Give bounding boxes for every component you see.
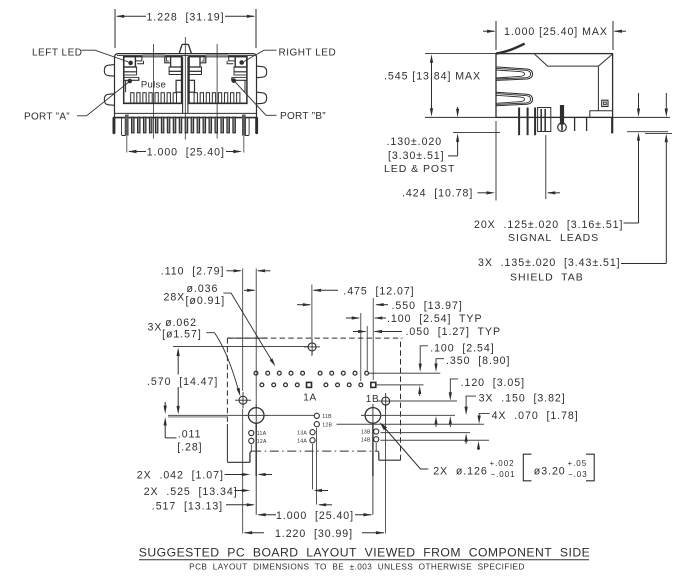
front view left EMI bump lower	[104, 94, 114, 106]
svg-text:SIGNAL LEADS: SIGNAL LEADS	[508, 232, 599, 244]
side view dim 1.000 [25.40] MAX	[483, 30, 495, 32]
pcb dim .011 [.28]	[164, 402, 166, 410]
svg-text:2X .525 [13.34]: 2X .525 [13.34]	[144, 486, 238, 498]
pcb dim .550 [13.97]	[297, 304, 310, 306]
pcb pin 1B square hole	[371, 382, 376, 387]
svg-text:2X ø.126: 2X ø.126	[433, 466, 487, 478]
side view spring finger lower	[496, 92, 533, 106]
pcb ext line crosshair row left	[173, 346, 308, 348]
side view body outline	[496, 54, 613, 118]
svg-text:.050 [1.27] TYP: .050 [1.27] TYP	[406, 326, 501, 338]
svg-text:14A: 14A	[297, 439, 307, 445]
side view led pin 3	[534, 108, 536, 136]
svg-text:3X .150 [3.82]: 3X .150 [3.82]	[479, 393, 566, 405]
front view port B centerline	[216, 44, 218, 139]
svg-text:.130±.020: .130±.020	[387, 136, 443, 148]
svg-text:1B: 1B	[366, 394, 379, 405]
pcb ext line 11A column	[250, 445, 252, 453]
svg-text:[ø1.57]: [ø1.57]	[162, 329, 202, 341]
pcb small hole left	[239, 396, 247, 404]
side view wide pin	[538, 108, 551, 132]
svg-text:−.001: −.001	[491, 470, 516, 479]
front view dim 1.228 extension line left	[114, 9, 116, 48]
pcb dashed outline	[227, 337, 267, 339]
svg-text:.011: .011	[178, 429, 202, 441]
side view dim .424 extension line left	[495, 121, 497, 201]
pcb ext line small hole B row	[391, 400, 457, 402]
front view dim 1.000 extension lines	[126, 136, 128, 153]
svg-text:3X: 3X	[148, 322, 163, 334]
svg-text:.517 [13.13]: .517 [13.13]	[152, 501, 223, 513]
front view port B interior (mirrored)	[189, 54, 247, 103]
side view spring finger upper	[496, 67, 533, 81]
pcb dim 1.220 [30.99]	[245, 532, 265, 534]
svg-text:−.03: −.03	[568, 470, 588, 479]
port B leader	[235, 82, 277, 116]
front view right shield tab	[256, 117, 258, 134]
svg-text:.110 [2.79]: .110 [2.79]	[161, 265, 225, 277]
pcb ext line crosshair column	[311, 285, 313, 343]
side view led pin 2	[527, 108, 529, 136]
svg-text:.424 [10.78]: .424 [10.78]	[402, 188, 473, 200]
svg-text:12A: 12A	[257, 439, 267, 445]
pcb ext line upper row right	[369, 372, 440, 374]
svg-text:LED & POST: LED & POST	[384, 163, 455, 175]
pcb bracket right	[586, 454, 594, 481]
side view dim .130 upper arrow	[457, 107, 459, 113]
svg-text:1A: 1A	[303, 393, 316, 404]
svg-text:ø3.20: ø3.20	[534, 466, 566, 478]
pcb ext line 1B square column	[372, 298, 374, 380]
svg-text:1.228 [31.19]: 1.228 [31.19]	[146, 11, 224, 23]
side view round post with eyelet	[560, 105, 564, 125]
pcb hole 14A	[310, 438, 315, 443]
svg-text:28X: 28X	[164, 291, 186, 303]
front view dim 1.000 [25.40]	[129, 151, 146, 153]
pcb ext line 13A column	[312, 444, 314, 490]
pcb hole 11B	[314, 413, 319, 418]
pcb hole 11A	[249, 430, 254, 435]
svg-text:.100 [2.54] TYP: .100 [2.54] TYP	[387, 313, 482, 325]
front view dim 1.228 extension line right	[255, 9, 257, 48]
front view port A centerline	[152, 44, 154, 139]
svg-text:11A: 11A	[257, 431, 267, 437]
front view right EMI bump upper	[257, 66, 267, 78]
front view top center tab	[179, 44, 191, 53]
side view dim .545 extension line top	[425, 53, 496, 55]
pcb dim 2X dia .126 leader	[382, 425, 429, 470]
front view right EMI bump lower	[257, 92, 267, 104]
svg-text:[3.30±.51]: [3.30±.51]	[388, 150, 445, 162]
pcb hole 13A	[310, 430, 315, 435]
pcb big mounting hole A	[248, 408, 264, 424]
front view left post pin	[122, 117, 126, 135]
svg-text:.100 [2.54]: .100 [2.54]	[430, 342, 494, 354]
svg-text:20X .125±.020 [3.16±.51]: 20X .125±.020 [3.16±.51]	[474, 219, 623, 231]
pcb leader 3X	[206, 333, 239, 394]
pcb pin 1A square hole	[307, 382, 312, 387]
pcb lower row signal holes	[260, 383, 363, 387]
svg-text:.570 [14.47]: .570 [14.47]	[147, 376, 218, 388]
svg-text:.545 [13.84] MAX: .545 [13.84] MAX	[384, 71, 481, 83]
front view body centerline	[184, 37, 186, 140]
side view signal leads arrows	[638, 93, 640, 109]
svg-text:3X .135±.020 [3.43±.51]: 3X .135±.020 [3.43±.51]	[478, 257, 621, 269]
svg-text:[ø0.91]: [ø0.91]	[186, 295, 226, 307]
svg-text:11B: 11B	[322, 414, 332, 420]
side view signal lead 1	[574, 117, 576, 131]
side view shield tab pin	[611, 117, 613, 133]
port A leader	[77, 82, 129, 116]
pcb second reference line	[168, 416, 227, 418]
svg-text:SUGGESTED PC BOARD LAYOUT: SUGGESTED PC BOARD LAYOUT VIEWED FROM CO…	[139, 545, 590, 559]
side view led pin 1	[518, 108, 520, 136]
pcb hole 14B	[374, 437, 379, 442]
pcb ext line big hole B column	[372, 424, 374, 476]
pcb big mounting hole B	[365, 408, 381, 424]
svg-text:.550 [13.97]: .550 [13.97]	[392, 300, 463, 312]
pcb ext line small hole B column	[384, 405, 386, 534]
pcb hole 12B	[314, 422, 319, 427]
front view left shield tab	[113, 117, 115, 134]
svg-text:.350 [8.90]: .350 [8.90]	[446, 355, 510, 367]
front view right post pin	[242, 115, 245, 135]
side view shield tab bottom line	[645, 132, 672, 134]
pcb ext line lower row right	[376, 384, 424, 386]
side view led&post pin bottom line	[453, 132, 500, 134]
side view dim .130 lower arrow leader	[457, 138, 459, 156]
side view seating plane line	[425, 116, 670, 118]
svg-text:4X .070 [1.78]: 4X .070 [1.78]	[492, 410, 579, 422]
svg-text:+.002: +.002	[490, 459, 515, 468]
pcb dim 1.000 [25.40]	[259, 514, 277, 516]
pcb ext line 13B column	[375, 443, 377, 451]
svg-text:1.000 [25.40] MAX: 1.000 [25.40] MAX	[504, 26, 608, 38]
side view signal lead bottom line	[627, 131, 668, 133]
side view dim 1.000 MAX extension lines	[495, 21, 497, 50]
svg-text:+.05: +.05	[568, 459, 588, 468]
pcb dim .100 TYP	[346, 317, 359, 319]
pcb horizontal centerline through mounting holes	[168, 414, 314, 416]
svg-text:ø.036: ø.036	[187, 283, 219, 295]
pcb ext line lower hole column	[360, 313, 362, 381]
front view connector body outline	[115, 54, 257, 118]
svg-text:13B: 13B	[361, 430, 371, 436]
svg-text:LEFT LED: LEFT LED	[32, 47, 83, 58]
pcb small hole top center	[308, 343, 316, 351]
svg-text:.475 [12.07]: .475 [12.07]	[343, 285, 414, 297]
side view signal lead 2	[586, 117, 588, 131]
side view dim .545 [13.84] MAX	[431, 58, 433, 113]
pcb leader 28X	[223, 293, 273, 363]
pcb ext line 14B row	[381, 439, 490, 441]
pcb small hole right	[382, 397, 390, 405]
pcb ext line 13B row	[381, 432, 471, 434]
svg-text:1.000 [25.40]: 1.000 [25.40]	[147, 146, 225, 158]
svg-text:SHIELD TAB: SHIELD TAB	[510, 271, 584, 283]
svg-text:2X .042 [1.07]: 2X .042 [1.07]	[137, 470, 224, 482]
svg-text:14B: 14B	[361, 438, 371, 444]
right led leader	[244, 50, 277, 61]
svg-text:12B: 12B	[322, 422, 332, 428]
pcb hole 12A	[249, 438, 254, 443]
svg-text:PORT ”A”: PORT ”A”	[24, 111, 70, 122]
front view dim 1.228 [31.19]	[117, 15, 146, 17]
pcb hole 13B	[374, 429, 379, 434]
front view left EMI bump upper	[104, 65, 114, 77]
pcb bracket left	[523, 454, 531, 481]
svg-text:PORT ”B”: PORT ”B”	[280, 111, 326, 122]
svg-text:1.220 [30.99]: 1.220 [30.99]	[275, 528, 353, 540]
front view port A interior	[124, 54, 182, 103]
side view shield tab arrows	[665, 93, 667, 109]
pcb ext line upper hole column	[366, 326, 368, 371]
pcb ext line 11B column	[316, 428, 318, 505]
svg-text:PCB LAYOUT DIMENSIONS TO B: PCB LAYOUT DIMENSIONS TO BE ±.003 UNLESS…	[189, 562, 525, 571]
pcb dim .050 TYP	[353, 331, 366, 333]
pcb ext line small hole A column	[242, 269, 244, 392]
side view latch whisker	[496, 44, 525, 54]
front view signal pins row	[132, 117, 236, 133]
pcb ext line 12B row	[337, 423, 485, 425]
svg-text:.120 [3.05]: .120 [3.05]	[461, 377, 525, 389]
pcb dim .475 [12.07]	[244, 289, 255, 291]
left led leader	[82, 50, 129, 62]
front view center divider wall	[182, 57, 184, 114]
svg-text:13A: 13A	[297, 430, 307, 436]
svg-text:ø.062: ø.062	[165, 317, 197, 329]
svg-text:[.28]: [.28]	[177, 442, 202, 454]
pcb dim .570 [14.47]	[177, 350, 179, 375]
side view shield tab hole square	[602, 100, 608, 106]
side view dim .424 extension line right	[545, 135, 547, 199]
svg-text:1.000 [25.40]: 1.000 [25.40]	[276, 510, 354, 522]
pcb ext line big hole A column	[255, 269, 257, 408]
svg-text:RIGHT LED: RIGHT LED	[279, 47, 337, 58]
pcb upper row signal holes	[254, 371, 368, 375]
